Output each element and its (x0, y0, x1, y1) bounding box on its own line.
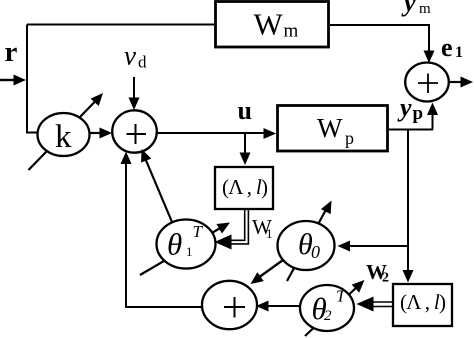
svg-text:1: 1 (186, 244, 193, 259)
svg-text:k: k (55, 119, 72, 155)
wire u branch down to filter (Lambda,l) (240, 133, 251, 165)
svg-text:1: 1 (455, 44, 463, 61)
wire y_p out of W_p (389, 129, 433, 131)
block filter (Lambda,l) upper (215, 167, 273, 209)
node r input arrow (0, 75, 26, 86)
adjustment arrow through theta1 (140, 218, 233, 275)
svg-text:y: y (401, 0, 416, 17)
svg-text:W: W (317, 113, 343, 143)
label v_d (124, 41, 147, 72)
svg-text:2: 2 (382, 271, 389, 286)
summing junction S2 (bottom +) (202, 281, 257, 329)
wire theta1 to S1 (136, 147, 172, 222)
wire y_p tap to theta0 (338, 241, 409, 252)
svg-text:v: v (124, 41, 136, 71)
gain theta1 (157, 220, 216, 269)
summing junction S1 (top left +) (112, 110, 157, 152)
svg-text:p: p (345, 128, 354, 148)
summing junction e1 (+) (405, 63, 449, 102)
svg-text:e: e (441, 33, 453, 62)
adjustment arrow through theta2 (305, 276, 368, 336)
wire y_p up into e1 junction (427, 103, 438, 130)
svg-text:θ: θ (167, 227, 182, 262)
wire k to summing junction (90, 128, 112, 139)
gain k (38, 113, 90, 156)
svg-text:T: T (193, 222, 204, 241)
svg-text:T: T (336, 287, 347, 306)
svg-text:m: m (284, 21, 299, 42)
block W_p (278, 106, 388, 152)
wire v_d into summing junction (129, 77, 140, 110)
svg-text:W: W (254, 7, 284, 42)
block filter (Lambda,l) lower (393, 284, 452, 326)
svg-text:1: 1 (266, 226, 273, 241)
wire r trunk down to k (27, 25, 38, 133)
svg-text:d: d (138, 53, 147, 72)
wire y_p trunk down to lower filter (403, 130, 414, 283)
wire W1 double line from filter to theta1 (215, 210, 249, 250)
block W_m (216, 2, 329, 48)
svg-text:r: r (5, 36, 18, 68)
gain theta0 (278, 221, 335, 270)
wire theta2 to S2 (256, 301, 300, 312)
svg-text:m: m (419, 1, 431, 17)
wire y_m from W_m to e1 junction (330, 25, 435, 63)
wire e1 output arrow (449, 77, 473, 88)
adjustment arrow through theta0 (287, 198, 336, 281)
wire S2 output to S1 (121, 152, 203, 308)
label W_2 (366, 260, 389, 286)
svg-text:p: p (413, 103, 424, 124)
svg-text:2: 2 (324, 308, 332, 324)
svg-text:y: y (397, 93, 412, 122)
svg-text:0: 0 (311, 242, 320, 262)
label y_p (397, 93, 423, 124)
wire r-trunk to W_m (27, 24, 214, 26)
label y_m (401, 0, 431, 17)
wire u : S1 to W_p (157, 128, 276, 139)
svg-text:(Λ , l): (Λ , l) (400, 290, 446, 314)
svg-text:u: u (238, 96, 252, 125)
label e_1 (441, 33, 463, 62)
wire W2 double line from lower filter to theta2 (357, 297, 393, 312)
wire theta0 to S2 (247, 260, 283, 288)
adjustment arrow through k (29, 89, 108, 170)
gain theta2 (300, 285, 354, 331)
label W_1 (252, 215, 273, 241)
svg-text:(Λ , l): (Λ , l) (222, 175, 268, 199)
